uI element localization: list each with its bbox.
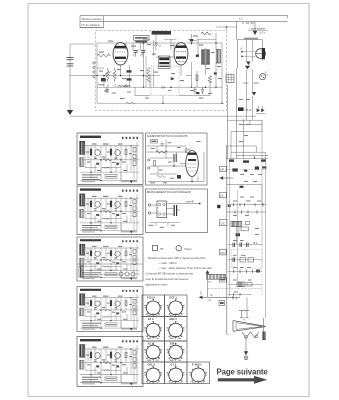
- dial lamp LP1: [260, 74, 266, 80]
- variable capacitor CV1: [134, 50, 138, 52]
- socket cell row1 col2: [165, 295, 188, 317]
- fuse F1: [229, 159, 234, 161]
- svg-text:Prises: Prises: [185, 248, 193, 251]
- capacitor C21: [177, 175, 181, 179]
- switch column wire 1: [229, 162, 231, 296]
- V3 anode: [187, 153, 196, 155]
- svg-text:1,2: 1,2: [239, 17, 243, 21]
- resistor R15 (vertical): [196, 75, 198, 81]
- capacitor C12: [214, 72, 217, 74]
- block dashed frame: [95, 31, 226, 111]
- socket EM4: [167, 343, 185, 361]
- tube V1 ECH3 (envelope): [113, 43, 128, 66]
- capacitor C10: [190, 39, 193, 41]
- extra top-block wiring: [97, 39, 210, 95]
- socket EL3: [144, 343, 162, 361]
- rectifier diodes D1 D2: [257, 109, 260, 112]
- fuse F3: [261, 159, 266, 161]
- svg-text:B.A: B.A: [254, 242, 258, 245]
- svg-text:6,3 V: 6,3 V: [260, 32, 266, 35]
- svg-text:N° du schéma: N° du schéma: [82, 23, 101, 27]
- transformer block TR2: [157, 201, 167, 218]
- node row low: [228, 294, 252, 296]
- trimmer block: [245, 222, 249, 225]
- svg-text:PO: PO: [220, 251, 225, 255]
- resistor R14 (tall vertical zigzag): [147, 67, 150, 82]
- bottom smudge labels: [98, 84, 212, 98]
- capacitor C19: [105, 87, 109, 93]
- input terminals: [148, 204, 150, 206]
- resistor R10 (grid zigzag): [97, 54, 111, 57]
- antenna coupling capacitor C16: [67, 63, 74, 65]
- svg-text:CY 2: CY 2: [171, 363, 177, 367]
- capacitor C24: [161, 144, 164, 146]
- box 3 internal divider: [77, 263, 143, 265]
- right side bus: [264, 152, 266, 318]
- socket CY2: [167, 366, 185, 384]
- svg-text:ECH 3: ECH 3: [147, 296, 155, 300]
- svg-text:EBF 2: EBF 2: [170, 317, 178, 321]
- svg-text:220 v: 220 v: [254, 83, 260, 85]
- harness verticals: [228, 69, 237, 159]
- tube V1 grid bars: [115, 57, 126, 59]
- box 3 pilot tubes: [119, 272, 123, 276]
- feed wire to speaker: [246, 297, 248, 310]
- antenna lead-in wire: [70, 44, 95, 110]
- svg-text:appareils en série.: appareils en série.: [146, 282, 169, 286]
- tube V1 anode bar: [115, 46, 127, 49]
- harness loops: [228, 119, 269, 159]
- header rule top: [80, 16, 288, 18]
- svg-text:CBL6: CBL6: [185, 149, 192, 152]
- header table cell: [80, 16, 104, 28]
- legend circle symbol (prise): [176, 246, 181, 251]
- capacitor C30: [240, 186, 244, 188]
- tapped coil block: [237, 282, 245, 287]
- voltage tap box: [219, 301, 225, 306]
- resistor R12 (vertical zigzag): [208, 76, 211, 84]
- svg-text:Tensions prises avec 220 V. ap: Tensions prises avec 220 V. après la pri…: [148, 256, 207, 260]
- socket EBF2: [167, 321, 185, 339]
- svg-text:pour le fonctionnement de tous: pour le fonctionnement de tous les: [146, 277, 189, 281]
- IF transformer can MF1: [159, 56, 171, 69]
- svg-text:EF 9: EF 9: [148, 317, 154, 321]
- junction dots: [173, 151, 193, 182]
- socket ECF1: [167, 299, 185, 317]
- antenna terminal posts: [93, 62, 95, 78]
- socket cell row4 col3: [187, 362, 210, 384]
- speaker cone (side view): [233, 321, 266, 332]
- socket cell row4 col2: [165, 362, 188, 384]
- speaker frame post: [263, 318, 265, 340]
- svg-text:HF: HF: [220, 168, 224, 172]
- frame corner node: [226, 26, 228, 28]
- tapped resistor block (comb): [231, 221, 242, 226]
- ballast resistor (dark): [238, 107, 244, 111]
- ground arrow A1: [253, 31, 257, 35]
- svg-text:La lampe EF 9B inscrite ci-des: La lampe EF 9B inscrite ci-dessus sert: [146, 271, 194, 275]
- box 3 lower wires: [86, 270, 140, 275]
- T1 core: [204, 49, 206, 66]
- supply wiring: [147, 147, 205, 182]
- band label PO: [219, 249, 226, 255]
- svg-text:BRANCHEMENT DU HAUT-PARLEUR: BRANCHEMENT DU HAUT-PARLEUR: [147, 190, 191, 194]
- capacitor C11: [196, 55, 199, 57]
- label resistance: [244, 38, 258, 40]
- resistor R20: [156, 151, 167, 153]
- wire bus top: [144, 38, 217, 40]
- resistor R13: [126, 102, 135, 104]
- contact row 1: [227, 204, 266, 206]
- resistor R11: [201, 32, 211, 35]
- socket EF9: [144, 321, 162, 339]
- switch bank spine: [226, 145, 228, 335]
- wire verticals: [97, 33, 222, 103]
- svg-text:ECF 1: ECF 1: [170, 296, 178, 300]
- socket cell row3 col1: [142, 341, 165, 362]
- MF dashed enclosure: [151, 66, 179, 96]
- header rule middle: [80, 20, 288, 22]
- padder capacitors row: [228, 259, 262, 261]
- svg-text:HP: HP: [160, 248, 164, 251]
- svg-text:E 443 H: E 443 H: [192, 363, 201, 367]
- tube V2 anode bar: [176, 45, 187, 48]
- svg-text:— haut : 220 V.: — haut : 220 V.: [158, 261, 177, 265]
- ground lead: [245, 338, 247, 353]
- socket cell row2 col2: [165, 317, 188, 342]
- long verticals mid-block: [146, 40, 154, 87]
- contact blobs row: [232, 168, 237, 171]
- dashed separator: [225, 169, 267, 171]
- socket E443H: [189, 366, 207, 384]
- capacitor C13: [101, 78, 106, 81]
- contact blobs: [236, 233, 240, 236]
- note paragraph: [146, 256, 213, 287]
- value label smudges (top block): [99, 36, 222, 100]
- top distribution wire: [147, 140, 187, 153]
- svg-text:MF: MF: [161, 86, 165, 90]
- value label smudges (switch column): [233, 99, 262, 293]
- resistor R21: [157, 175, 166, 177]
- capacitor C25: [127, 70, 132, 72]
- mains terminals: [148, 159, 150, 161]
- node row: [228, 270, 262, 272]
- svg-text:EL 3: EL 3: [148, 342, 154, 346]
- variable capacitor CV2: [141, 50, 145, 52]
- output connection box frame: [146, 189, 208, 233]
- svg-text:CA: CA: [220, 194, 224, 198]
- wire to HP: [167, 203, 200, 205]
- fuse F2: [243, 160, 249, 162]
- wire bus mid: [94, 75, 161, 77]
- junction dots: [120, 42, 217, 88]
- socket cell row4 col1: [142, 362, 165, 384]
- eye screen (dark): [262, 48, 265, 59]
- GO value box: [219, 278, 226, 282]
- switch column wire 2: [237, 190, 239, 282]
- filter capacitor C20: [173, 154, 175, 162]
- heater chain wires: [247, 69, 253, 120]
- feedback arrow to sockets: [207, 274, 209, 298]
- M1 label smudges: [150, 141, 201, 183]
- tone trimmer: [239, 311, 249, 321]
- band label HF: [219, 166, 226, 171]
- wire top rail: [97, 42, 222, 44]
- capacitor C18: [125, 85, 128, 87]
- tube V2 grid bars: [176, 56, 186, 58]
- resistor R22 (vertical): [154, 161, 156, 167]
- output transformer T1 (windings): [201, 50, 204, 64]
- resistor R16 (top zigzag): [153, 44, 162, 46]
- wire drops: [237, 227, 239, 244]
- junction dots (top block): [96, 75, 222, 104]
- coupling coil L5: [118, 86, 130, 88]
- svg-text:+ haut-parleur: + haut-parleur: [249, 26, 265, 30]
- wire bus low: [97, 86, 222, 88]
- capacitor C17: [103, 79, 106, 81]
- eye wiring verticals: [247, 40, 253, 62]
- svg-text:A 2A 8A: A 2A 8A: [242, 21, 254, 25]
- svg-text:Page suivante: Page suivante: [217, 368, 269, 377]
- switch column wire 3: [261, 120, 263, 245]
- svg-text:CBL 6: CBL 6: [148, 363, 156, 367]
- value box: [241, 227, 248, 231]
- chassis variant box 5: [77, 337, 143, 387]
- tube V2 ECF1 (envelope): [174, 43, 188, 66]
- svg-text:T.B: T.B: [210, 295, 214, 297]
- capacitor C14: [171, 78, 174, 80]
- GO tapped coil (hatched): [206, 274, 225, 279]
- capacitor C26: [127, 78, 132, 80]
- socket CBL6: [144, 366, 162, 384]
- socket cell row3 col2: [165, 341, 188, 362]
- magic eye tube (side view): [256, 49, 266, 59]
- chassis variant box 4: [77, 287, 143, 332]
- capacitor row (C31 C32 C33): [228, 244, 262, 246]
- socket ECH3: [144, 299, 162, 317]
- svg-text:50 µF: 50 µF: [246, 110, 253, 112]
- band label OC: [219, 220, 227, 226]
- ground arrow A4: [252, 92, 256, 96]
- node dot: [199, 203, 201, 205]
- wires: [151, 205, 180, 214]
- ground arrow A2: [246, 62, 250, 66]
- speaker field coil L3: [216, 50, 220, 63]
- band label CAD: [219, 193, 226, 198]
- magic eye unit frame: [237, 40, 262, 69]
- ground symbol: [67, 110, 73, 115]
- drop wire to grid: [200, 291, 202, 295]
- svg-text:vers HP: vers HP: [186, 201, 195, 204]
- ground arrow A3: [245, 66, 250, 70]
- next-page arrow: [218, 376, 267, 384]
- chassis variant box 3: [77, 237, 143, 281]
- speaker suspension: [242, 332, 259, 338]
- supply bus: [226, 158, 268, 160]
- svg-text:Tension secteur: Tension secteur: [82, 17, 102, 21]
- dashed group frame: [232, 250, 263, 269]
- mains plug (grid box): [226, 75, 234, 83]
- title label (tubes list): [152, 31, 171, 35]
- socket cell row1 col1: [142, 295, 165, 317]
- suspension eyelets: [245, 335, 248, 338]
- svg-text:EM 4: EM 4: [170, 342, 177, 346]
- potentiometer P1 (volume): [106, 68, 109, 82]
- svg-text:(2): (2): [208, 281, 211, 283]
- eye terminals: [241, 51, 243, 53]
- coupling capacitor C22: [173, 205, 175, 216]
- voice coil: [263, 332, 266, 340]
- antenna coupling capacitor C15: [67, 57, 74, 59]
- label box (model no): [134, 36, 149, 41]
- contact row 2: [227, 211, 266, 213]
- svg-text:ALIMENTATION TOUS COURANTS: ALIMENTATION TOUS COURANTS: [147, 134, 188, 138]
- wire row: [227, 185, 262, 205]
- wire bus bottom: [97, 102, 224, 104]
- mains switch blob: [217, 205, 220, 208]
- rectifier tube V3 (envelope): [186, 151, 199, 177]
- chassis variant box 2: [77, 186, 143, 234]
- decoupling cluster caps: [194, 87, 205, 94]
- box 3 lower coil: [79, 267, 84, 278]
- chassis terminal: [244, 356, 248, 360]
- dashed drop: [261, 245, 263, 296]
- selector arrow: [220, 177, 233, 179]
- socket cell row2 col1: [142, 317, 165, 342]
- M2 bottom smudges: [149, 225, 176, 228]
- M2 bottom wiring: [150, 223, 180, 227]
- svg-text:— bas : selon schéma. Pour 11: — bas : selon schéma. Pour 110 V par cat…: [158, 266, 213, 270]
- wire v-drop: [128, 65, 130, 87]
- chassis variant box 1 (CADRE ANTENNE): [77, 133, 143, 184]
- dashed group line: [208, 288, 262, 290]
- V3 cathode bars: [188, 159, 196, 161]
- feed wire from header: [237, 21, 256, 39]
- legend square symbol (HP terminal): [153, 245, 158, 250]
- power supply box frame: [146, 133, 208, 185]
- wire to right column: [70, 115, 256, 117]
- pilot label box: [151, 140, 158, 144]
- capacitor C23 (dark): [196, 92, 199, 94]
